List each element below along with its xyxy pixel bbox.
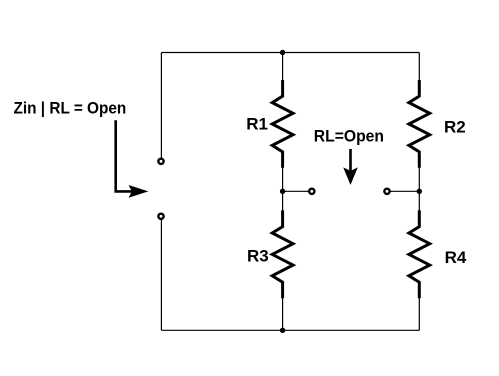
svg-text:R2: R2 [444, 118, 466, 137]
node B: junction dot middle-left [280, 189, 285, 194]
wire: middle branch below R3 to bottom rail [282, 282, 284, 330]
svg-text:R1: R1 [246, 115, 268, 134]
node A: junction dot on top rail [280, 50, 285, 55]
node D: junction dot on bottom rail [280, 328, 285, 333]
wire: bottom rail [161, 329, 419, 331]
wire: top rail from node A to top-right corner [161, 52, 419, 54]
resistor R1 body [272, 80, 293, 168]
wire: right branch between R2 and R4 through node C [418, 152, 420, 227]
annotation arrow head: pointing right at terminals [129, 185, 149, 198]
terminal T4: middle-right open terminal [384, 189, 389, 194]
svg-text:RL=Open: RL=Open [314, 127, 384, 146]
terminal T2: lower-left open terminal [158, 214, 163, 219]
annotation arrow head: pointing down between terminals [343, 167, 358, 185]
annotation arrow shaft: downward below RL=Open [349, 149, 352, 174]
svg-text:Zin | RL = Open: Zin | RL = Open [14, 99, 127, 118]
resistor R4 body [409, 210, 430, 298]
wire: stub from node B to terminal T3 [283, 190, 312, 192]
annotation arrow shaft: from Zin label down then right toward terminals [116, 120, 133, 191]
wire: right branch below R4 to bottom rail [418, 282, 420, 330]
wire: right branch upper lead into R2 [418, 53, 420, 97]
resistor R2 body [409, 80, 430, 168]
wire: middle branch between R1 and R3 through node B [282, 152, 284, 227]
node C: junction dot middle-right [417, 189, 422, 194]
terminal T3: middle-left open terminal [309, 189, 314, 194]
wire: left rail lower segment (terminal T2 down to bottom-left corner) [160, 216, 162, 330]
terminal T1: upper-left open terminal [158, 159, 163, 164]
wire: stub from terminal T4 to node C [387, 190, 419, 192]
resistor R3 body [272, 210, 293, 298]
svg-text:R4: R4 [445, 248, 467, 267]
svg-text:R3: R3 [247, 246, 269, 265]
wire: left rail upper segment (top-left corner down to terminal T1) [160, 53, 162, 162]
wire: middle branch upper lead into R1 [282, 53, 284, 97]
